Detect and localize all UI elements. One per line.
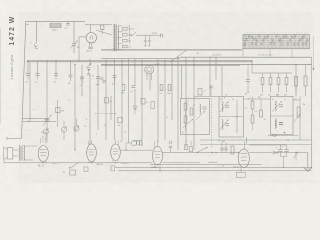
svg-text:0,1: 0,1: [118, 125, 121, 127]
svg-text:2M: 2M: [121, 93, 124, 95]
svg-text:30k: 30k: [220, 99, 223, 101]
svg-text:~220V: ~220V: [151, 33, 158, 35]
svg-text:W2: W2: [276, 94, 279, 96]
svg-text:EBF 11: EBF 11: [97, 164, 105, 166]
svg-text:0,1: 0,1: [232, 99, 234, 101]
svg-text:0,1: 0,1: [295, 99, 297, 101]
svg-text:4: 4: [86, 119, 87, 121]
svg-text:EL 11: EL 11: [38, 166, 44, 168]
svg-text:2k: 2k: [204, 91, 206, 93]
svg-text:220: 220: [128, 46, 131, 48]
svg-text:Loewe-Opta: Loewe-Opta: [9, 54, 14, 79]
svg-text:10k: 10k: [260, 95, 263, 97]
svg-text:0,1: 0,1: [255, 111, 258, 113]
svg-text:0,5: 0,5: [112, 84, 115, 86]
svg-text:1M: 1M: [61, 111, 64, 113]
svg-text:0,1: 0,1: [110, 101, 112, 103]
svg-text:10k: 10k: [284, 95, 287, 97]
svg-text:Ua 202V=: Ua 202V=: [212, 54, 222, 56]
svg-text:50: 50: [68, 83, 70, 85]
svg-text:6k8: 6k8: [258, 97, 261, 99]
svg-text:a: a: [33, 109, 34, 111]
svg-text:125: 125: [131, 29, 134, 31]
svg-text:50: 50: [104, 125, 106, 127]
svg-text:30: 30: [182, 132, 184, 134]
svg-text:2: 2: [96, 134, 97, 136]
svg-text:100: 100: [287, 140, 290, 142]
svg-text:0,1: 0,1: [80, 85, 83, 87]
svg-text:0,3: 0,3: [159, 93, 162, 95]
svg-text:8k2: 8k2: [197, 53, 200, 55]
svg-text:5k: 5k: [218, 140, 220, 142]
svg-text:0,1: 0,1: [131, 91, 134, 93]
svg-text:2,5: 2,5: [245, 108, 247, 110]
svg-text:0,1: 0,1: [284, 99, 286, 101]
svg-text:1472 W: 1472 W: [9, 16, 16, 46]
svg-text:30: 30: [26, 81, 28, 83]
svg-text:50: 50: [264, 119, 266, 121]
svg-text:50k: 50k: [167, 93, 170, 95]
svg-text:0,1: 0,1: [187, 101, 189, 103]
svg-text:30: 30: [92, 76, 94, 78]
svg-text:gn: gn: [222, 166, 224, 168]
svg-text:25: 25: [84, 126, 86, 128]
svg-text:a.Wellensch.: a.Wellensch.: [208, 162, 218, 164]
svg-text:10k: 10k: [268, 95, 271, 97]
svg-text:50: 50: [272, 99, 274, 101]
svg-text:0,1: 0,1: [35, 81, 38, 83]
svg-text:W1: W1: [225, 94, 228, 96]
svg-text:AZ 11: AZ 11: [87, 50, 93, 53]
svg-text:500: 500: [41, 132, 44, 134]
svg-text:An: An: [27, 23, 29, 26]
svg-text:1k: 1k: [193, 105, 195, 107]
svg-text:30k: 30k: [222, 141, 225, 143]
svg-text:W: W: [63, 172, 65, 174]
svg-text:1k: 1k: [124, 132, 126, 134]
svg-text:50: 50: [146, 102, 148, 104]
svg-text:0,2: 0,2: [54, 81, 57, 83]
svg-text:0,1: 0,1: [166, 117, 168, 119]
svg-text:0,1: 0,1: [120, 141, 122, 143]
svg-text:9h 202V= 4,65V~: 9h 202V= 4,65V~: [258, 55, 274, 57]
svg-text:ECH 11: ECH 11: [122, 163, 130, 165]
svg-text:3: 3: [69, 100, 70, 102]
